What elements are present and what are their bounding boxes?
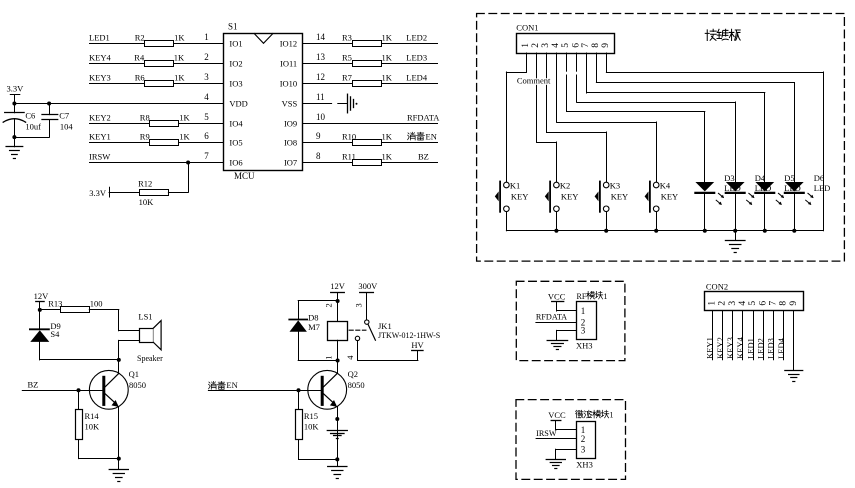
svg-text:10uf: 10uf xyxy=(25,121,41,131)
svg-text:IO3: IO3 xyxy=(229,78,242,88)
svg-text:R12: R12 xyxy=(138,178,152,188)
svg-text:LS1: LS1 xyxy=(138,312,152,322)
svg-text:1: 1 xyxy=(708,301,718,306)
svg-text:4: 4 xyxy=(551,43,561,48)
svg-text:3: 3 xyxy=(728,301,738,306)
svg-text:VCC: VCC xyxy=(548,291,566,301)
svg-text:M7: M7 xyxy=(308,322,320,332)
svg-text:R11: R11 xyxy=(342,152,356,162)
svg-text:8: 8 xyxy=(316,151,321,161)
svg-text:R9: R9 xyxy=(140,132,150,142)
svg-text:7: 7 xyxy=(581,43,591,48)
svg-text:3: 3 xyxy=(581,326,586,336)
svg-text:10K: 10K xyxy=(85,422,101,432)
svg-text:C7: C7 xyxy=(59,111,69,121)
svg-text:LED1: LED1 xyxy=(745,338,755,359)
svg-text:7: 7 xyxy=(204,151,209,161)
svg-text:LED4: LED4 xyxy=(406,73,428,83)
svg-text:HV: HV xyxy=(411,340,424,350)
svg-text:KEY4: KEY4 xyxy=(89,53,111,63)
svg-text:R14: R14 xyxy=(85,411,100,421)
svg-text:IO12: IO12 xyxy=(280,38,297,48)
svg-text:K3: K3 xyxy=(610,181,620,191)
svg-text:2: 2 xyxy=(324,303,334,307)
svg-text:1K: 1K xyxy=(382,53,393,63)
svg-text:9: 9 xyxy=(789,301,799,306)
svg-text:14: 14 xyxy=(316,32,326,42)
svg-text:4: 4 xyxy=(738,301,748,306)
svg-text:12: 12 xyxy=(316,72,325,82)
svg-text:RFDATA: RFDATA xyxy=(536,313,567,322)
svg-text:LED3: LED3 xyxy=(406,53,427,63)
svg-text:R8: R8 xyxy=(140,113,150,123)
svg-text:R4: R4 xyxy=(134,53,145,63)
svg-text:IRSW: IRSW xyxy=(536,429,557,438)
svg-text:R10: R10 xyxy=(342,132,356,142)
svg-text:6: 6 xyxy=(571,43,581,48)
svg-text:Q2: Q2 xyxy=(348,369,358,379)
svg-text:K1: K1 xyxy=(510,181,520,191)
svg-text:VCC: VCC xyxy=(548,410,566,420)
svg-text:IO7: IO7 xyxy=(284,157,297,167)
svg-text:13: 13 xyxy=(316,52,326,62)
svg-text:1: 1 xyxy=(204,32,209,42)
svg-text:R5: R5 xyxy=(342,53,352,63)
svg-text:KEY4: KEY4 xyxy=(735,336,745,358)
svg-text:KEY2: KEY2 xyxy=(715,337,725,359)
svg-text:EN: EN xyxy=(226,380,237,390)
svg-text:VDD: VDD xyxy=(229,98,247,108)
svg-text:1: 1 xyxy=(581,306,586,316)
svg-text:9: 9 xyxy=(601,43,611,48)
svg-text:6: 6 xyxy=(204,131,209,141)
svg-text:LED2: LED2 xyxy=(756,338,766,359)
svg-text:D3: D3 xyxy=(724,173,734,183)
svg-text:100: 100 xyxy=(90,299,103,309)
svg-text:1: 1 xyxy=(604,292,608,301)
svg-text:8050: 8050 xyxy=(129,380,146,390)
svg-text:S4: S4 xyxy=(50,329,60,339)
svg-text:BZ: BZ xyxy=(418,152,429,162)
svg-text:KEY: KEY xyxy=(611,191,628,201)
svg-text:1: 1 xyxy=(521,43,531,48)
svg-text:300V: 300V xyxy=(358,281,378,291)
svg-text:12V: 12V xyxy=(330,281,346,291)
svg-text:KEY3: KEY3 xyxy=(725,337,735,359)
svg-text:Q1: Q1 xyxy=(129,369,139,379)
svg-text:LED: LED xyxy=(814,183,831,193)
svg-text:3: 3 xyxy=(541,43,551,48)
svg-text:RF: RF xyxy=(577,292,587,301)
svg-text:IO10: IO10 xyxy=(280,78,297,88)
svg-text:S1: S1 xyxy=(228,22,238,32)
svg-text:KEY: KEY xyxy=(561,191,578,201)
svg-text:1K: 1K xyxy=(179,113,190,123)
svg-text:1K: 1K xyxy=(174,33,185,43)
svg-text:IO2: IO2 xyxy=(229,58,242,68)
svg-text:R3: R3 xyxy=(342,33,352,43)
svg-text:2: 2 xyxy=(531,43,541,48)
svg-text:1K: 1K xyxy=(179,132,190,142)
svg-text:3: 3 xyxy=(204,72,209,82)
svg-text:XH3: XH3 xyxy=(576,341,593,351)
svg-text:1K: 1K xyxy=(174,73,185,83)
svg-text:3: 3 xyxy=(354,303,364,307)
svg-text:12V: 12V xyxy=(34,291,50,301)
svg-text:3: 3 xyxy=(581,444,586,454)
svg-text:3.3V: 3.3V xyxy=(89,188,107,198)
svg-text:104: 104 xyxy=(60,121,74,131)
svg-text:2: 2 xyxy=(204,52,209,62)
svg-text:9: 9 xyxy=(316,131,321,141)
svg-text:10: 10 xyxy=(316,112,326,122)
svg-text:KEY: KEY xyxy=(511,191,528,201)
svg-text:1K: 1K xyxy=(382,152,393,162)
svg-text:1K: 1K xyxy=(382,33,393,43)
svg-text:1K: 1K xyxy=(174,53,185,63)
svg-text:IRSW: IRSW xyxy=(89,152,110,162)
svg-text:XH3: XH3 xyxy=(576,460,593,470)
svg-text:4: 4 xyxy=(345,355,355,360)
svg-text:IO4: IO4 xyxy=(229,118,243,128)
svg-text:KEY1: KEY1 xyxy=(89,132,111,142)
svg-text:1: 1 xyxy=(324,356,334,360)
svg-text:CON2: CON2 xyxy=(706,281,728,291)
svg-text:1K: 1K xyxy=(382,73,393,83)
svg-text:D6: D6 xyxy=(814,173,824,183)
svg-text:5: 5 xyxy=(204,112,209,122)
svg-text:D4: D4 xyxy=(755,173,766,183)
svg-text:R13: R13 xyxy=(48,299,62,309)
svg-text:IO9: IO9 xyxy=(284,118,297,128)
svg-text:IO11: IO11 xyxy=(280,58,297,68)
svg-text:R7: R7 xyxy=(342,73,352,83)
svg-text:2: 2 xyxy=(581,434,586,444)
svg-text:MCU: MCU xyxy=(234,171,255,181)
svg-text:LED4: LED4 xyxy=(776,337,786,359)
svg-text:EN: EN xyxy=(426,132,437,142)
svg-text:R15: R15 xyxy=(304,411,318,421)
svg-text:KEY1: KEY1 xyxy=(705,337,715,359)
svg-text:IO1: IO1 xyxy=(229,38,242,48)
svg-text:1: 1 xyxy=(610,411,614,420)
svg-text:2: 2 xyxy=(718,301,728,306)
svg-text:IO8: IO8 xyxy=(284,137,297,147)
svg-text:10K: 10K xyxy=(304,422,320,432)
svg-text:BZ: BZ xyxy=(28,380,39,390)
svg-text:IO6: IO6 xyxy=(229,157,242,167)
svg-text:8: 8 xyxy=(779,301,789,306)
svg-text:7: 7 xyxy=(768,301,778,306)
svg-text:VSS: VSS xyxy=(282,98,298,108)
svg-text:LED2: LED2 xyxy=(406,33,427,43)
svg-text:3.3V: 3.3V xyxy=(7,84,25,94)
svg-text:KEY2: KEY2 xyxy=(89,113,111,123)
svg-text:K2: K2 xyxy=(560,181,570,191)
svg-text:D8: D8 xyxy=(308,313,318,323)
svg-text:KEY: KEY xyxy=(661,191,678,201)
svg-text:D5: D5 xyxy=(784,173,794,183)
svg-text:R6: R6 xyxy=(135,73,145,83)
svg-text:LED3: LED3 xyxy=(766,338,776,359)
svg-text:CON1: CON1 xyxy=(516,23,538,33)
svg-text:C6: C6 xyxy=(25,111,35,121)
svg-text:IO5: IO5 xyxy=(229,137,242,147)
svg-text:5: 5 xyxy=(561,43,571,48)
svg-text:Comment: Comment xyxy=(517,76,551,86)
svg-text:K4: K4 xyxy=(660,181,671,191)
svg-text:4: 4 xyxy=(204,92,209,102)
svg-text:RFDATA: RFDATA xyxy=(407,113,440,123)
svg-text:8050: 8050 xyxy=(348,380,365,390)
svg-text:10K: 10K xyxy=(139,197,155,207)
svg-text:KEY3: KEY3 xyxy=(89,73,111,83)
svg-text:1K: 1K xyxy=(382,132,393,142)
svg-text:8: 8 xyxy=(591,43,601,48)
svg-text:Speaker: Speaker xyxy=(137,354,163,363)
svg-text:11: 11 xyxy=(316,92,325,102)
svg-text:JK1: JK1 xyxy=(378,321,392,331)
svg-text:JTKW-012-1HW-S: JTKW-012-1HW-S xyxy=(378,331,440,340)
svg-text:R2: R2 xyxy=(135,33,145,43)
svg-text:5: 5 xyxy=(748,301,758,306)
svg-text:LED1: LED1 xyxy=(89,33,110,43)
svg-text:6: 6 xyxy=(758,301,768,306)
